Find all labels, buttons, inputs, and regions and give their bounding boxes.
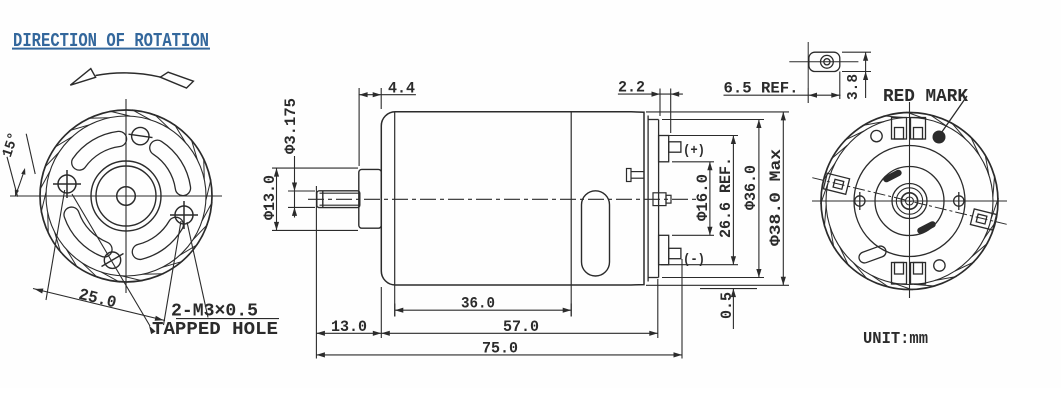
- terminal detail centerlines: [789, 42, 858, 88]
- left view bearing boss circles: [91, 161, 161, 231]
- svg-text:0.5: 0.5: [718, 292, 736, 319]
- dimension 36.0: [395, 285, 572, 317]
- title DIRECTION OF ROTATION: [12, 30, 210, 52]
- dimension 13.0 and 57.0: [316, 186, 657, 359]
- svg-text:2.2: 2.2: [618, 79, 645, 97]
- dimension 25.0: [33, 190, 181, 325]
- rear small hole bottom: [934, 260, 945, 271]
- left view screw top: [129, 127, 153, 144]
- svg-text:Φ3.175: Φ3.175: [282, 98, 300, 154]
- dimension 2.2: [618, 89, 683, 134]
- dimension 4.4: [359, 88, 416, 166]
- terminal boss minus: [659, 235, 681, 264]
- dimension 26.6 REF: [661, 136, 738, 265]
- rear view outer rim: [821, 113, 998, 290]
- rear side tab right: [970, 209, 996, 230]
- rear bottom tab left: [892, 263, 907, 285]
- rear small hole top: [871, 130, 882, 141]
- middle view center axis: [308, 198, 700, 200]
- svg-text:13.0: 13.0: [331, 318, 367, 336]
- left view outer rim: [40, 110, 212, 282]
- terminal boss plus: [659, 136, 681, 162]
- can rear edge: [570, 112, 572, 285]
- endbell rear: [648, 116, 659, 282]
- left view screw bottom: [102, 252, 124, 268]
- svg-text:36.0: 36.0: [461, 295, 495, 313]
- rear oval slot: [857, 245, 887, 265]
- label RED MARK with leader: [883, 87, 968, 133]
- rear commutator slots: [882, 169, 937, 235]
- dimension dia 16.0: [672, 162, 714, 236]
- motor can body: [381, 112, 644, 285]
- svg-text:Φ36.0: Φ36.0: [742, 165, 760, 210]
- rear view rim hatching: [821, 112, 999, 290]
- left view M3 hole right: [170, 201, 198, 229]
- rear view inner circles: [854, 146, 965, 257]
- svg-text:3.8: 3.8: [845, 74, 862, 100]
- svg-text:Φ16.0: Φ16.0: [694, 174, 712, 221]
- svg-text:57.0: 57.0: [503, 318, 539, 336]
- dimension 3.8: [842, 52, 871, 98]
- left view M3 hole left: [53, 170, 81, 198]
- svg-text:75.0: 75.0: [482, 339, 518, 357]
- rear view centerlines: [812, 102, 1007, 298]
- dimension dia 13.0: [272, 168, 358, 230]
- dimension 15 degrees: [7, 134, 35, 197]
- oval vent slot: [582, 191, 610, 276]
- rotation arrow: [70, 69, 193, 88]
- clinch tab on can: [627, 169, 645, 182]
- dimension dia 3.175: [288, 156, 315, 218]
- left view shaft circle: [117, 187, 136, 206]
- rear view diagonal centerline: [812, 178, 1006, 225]
- rear bottom tab right: [911, 263, 926, 285]
- rear shaft stub: [653, 193, 671, 206]
- svg-text:(-): (-): [683, 252, 705, 268]
- red mark dot: [933, 131, 946, 144]
- front bearing boss: [359, 169, 382, 228]
- dimension 6.5 REF: [724, 72, 841, 104]
- svg-text:UNIT:mm: UNIT:mm: [863, 330, 928, 349]
- leader lines tapped holes: [72, 194, 279, 326]
- dimension dia 38.0 Max: [646, 112, 789, 285]
- rear view shaft: [901, 193, 917, 209]
- terminal detail view: [809, 52, 840, 71]
- rear brush cap right: [911, 118, 926, 140]
- left view vent slots: [64, 131, 191, 259]
- svg-text:TAPPED HOLE: TAPPED HOLE: [152, 320, 278, 340]
- dimension dia 36.0: [662, 120, 764, 278]
- svg-text:Φ38.0 Max: Φ38.0 Max: [767, 149, 785, 246]
- left view rim hatching: [40, 110, 213, 283]
- svg-text:4.4: 4.4: [388, 80, 415, 98]
- shaft: [317, 191, 360, 208]
- svg-text:Φ13.0: Φ13.0: [261, 175, 279, 220]
- rear crosshair hole left: [855, 192, 865, 210]
- rear brush cap left: [892, 118, 907, 140]
- rear view boss circles: [892, 184, 927, 219]
- dimension 0.5: [700, 289, 757, 329]
- svg-text:6.5 REF.: 6.5 REF.: [724, 80, 799, 98]
- svg-text:RED MARK: RED MARK: [883, 87, 968, 107]
- rear side tab left: [823, 173, 849, 194]
- svg-text:2-M3×0.5: 2-M3×0.5: [171, 302, 258, 322]
- label 2-M3x0.5 TAPPED HOLE: [152, 302, 278, 341]
- rear crosshair hole right: [954, 192, 964, 210]
- left view centerlines: [10, 99, 222, 293]
- can crimp line: [394, 113, 396, 285]
- dimension 75.0: [316, 259, 682, 359]
- svg-text:(+): (+): [683, 143, 705, 159]
- svg-text:26.6 REF.: 26.6 REF.: [717, 157, 735, 238]
